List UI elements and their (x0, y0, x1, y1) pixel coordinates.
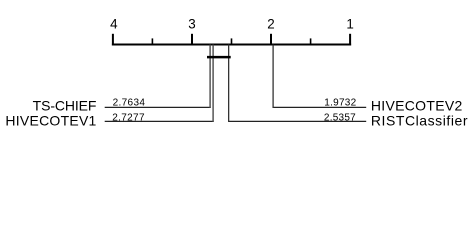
svg-text:2.7634: 2.7634 (113, 98, 146, 109)
connector TS-CHIEF (105, 45, 211, 109)
svg-text:TS-CHIEF: TS-CHIEF (33, 98, 97, 114)
svg-text:3: 3 (188, 17, 195, 32)
svg-text:HIVECOTEV1: HIVECOTEV1 (5, 113, 96, 129)
svg-text:1: 1 (346, 17, 353, 32)
svg-text:HIVECOTEV2: HIVECOTEV2 (371, 98, 463, 114)
svg-text:2.5357: 2.5357 (324, 112, 356, 123)
connector HIVECOTEV1 (105, 45, 214, 123)
clique bar (207, 56, 231, 59)
svg-text:1.9732: 1.9732 (324, 98, 356, 109)
axis line (112, 44, 351, 46)
minor tick 1.5 (310, 38, 312, 45)
major tick 2 (270, 34, 272, 46)
svg-text:4: 4 (110, 17, 118, 32)
major tick 4 (112, 34, 114, 46)
connector HIVECOTEV2 (273, 45, 367, 109)
major tick 1 (349, 34, 351, 46)
minor tick 3.5 (151, 38, 153, 45)
major tick 3 (191, 34, 193, 46)
svg-text:2: 2 (267, 17, 274, 32)
svg-text:RISTClassifier: RISTClassifier (371, 113, 468, 129)
connector RISTClassifier (228, 45, 366, 123)
minor tick 2.5 (231, 38, 233, 45)
svg-text:2.7277: 2.7277 (112, 112, 145, 123)
